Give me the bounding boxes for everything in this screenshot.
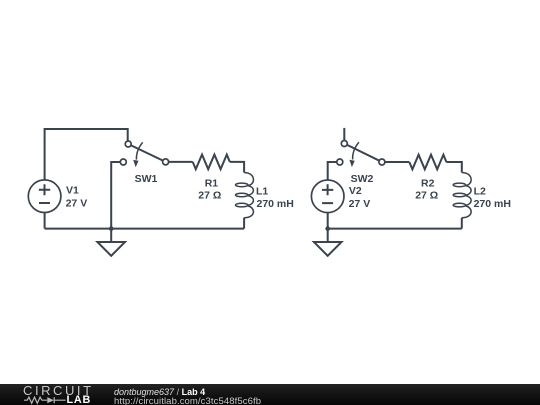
- svg-text:SW1: SW1: [135, 173, 158, 185]
- wire: SW2 throw-B to V2 top: [328, 162, 337, 180]
- svg-text:R2: R2: [421, 177, 435, 189]
- voltage source V1: [28, 180, 61, 213]
- label L2 value: [474, 185, 511, 210]
- label SW2: [351, 173, 374, 185]
- svg-text:L1: L1: [256, 185, 268, 197]
- switch SW1: [120, 141, 168, 167]
- wire: V1 top to switch SW1 top terminal: [45, 129, 128, 180]
- label R1 value: [198, 177, 221, 201]
- switch SW2: [337, 141, 385, 168]
- svg-text:SW2: SW2: [351, 173, 374, 185]
- svg-text:V2: V2: [349, 185, 362, 197]
- logo diode symbol: [47, 397, 54, 403]
- svg-text:27 Ω: 27 Ω: [198, 190, 221, 202]
- inductor L1: [236, 173, 254, 229]
- footer bar: [0, 384, 540, 405]
- ground (right): [314, 229, 342, 256]
- ground (left): [97, 229, 125, 256]
- junction node at V2 bottom: [325, 226, 330, 231]
- label V1 value: [66, 185, 88, 210]
- wire: SW2 top stub (open): [343, 128, 345, 141]
- svg-text:L2: L2: [474, 185, 486, 197]
- label L1 value: [256, 185, 294, 210]
- label SW1: [135, 173, 158, 185]
- inductor L2: [453, 173, 471, 229]
- wire: R1 to L1 corner: [230, 162, 244, 173]
- resistor R2: [409, 155, 446, 170]
- CircuitLab logo wordmark: [23, 383, 94, 398]
- wire: SW2 common to R2: [385, 161, 409, 163]
- svg-text:V1: V1: [66, 185, 79, 197]
- wire: V1 bottom to bottom rail: [44, 213, 46, 229]
- svg-text:27 V: 27 V: [66, 198, 88, 210]
- svg-text:270 mH: 270 mH: [257, 198, 294, 210]
- voltage source V2: [311, 180, 344, 213]
- resistor R1: [193, 155, 230, 170]
- wire: SW1 throw-B down to bottom rail: [111, 162, 120, 229]
- svg-text:R1: R1: [205, 177, 219, 189]
- label V2 value: [349, 185, 371, 210]
- wire: bottom rail right circuit: [328, 228, 462, 230]
- svg-text:27 Ω: 27 Ω: [415, 190, 438, 202]
- wire: bottom rail left circuit: [45, 228, 245, 230]
- label R2 value: [415, 177, 438, 201]
- wire: R2 to L2 corner: [446, 162, 461, 173]
- svg-text:270 mH: 270 mH: [474, 198, 511, 210]
- junction node at left ground: [109, 226, 114, 231]
- logo resistor zigzag: [24, 397, 47, 403]
- wire: SW1 common to R1: [169, 161, 193, 163]
- svg-text:27 V: 27 V: [349, 198, 371, 210]
- wire: V2 bottom to bottom rail: [327, 213, 329, 229]
- logo squiggle: resistor + diode: [24, 396, 67, 405]
